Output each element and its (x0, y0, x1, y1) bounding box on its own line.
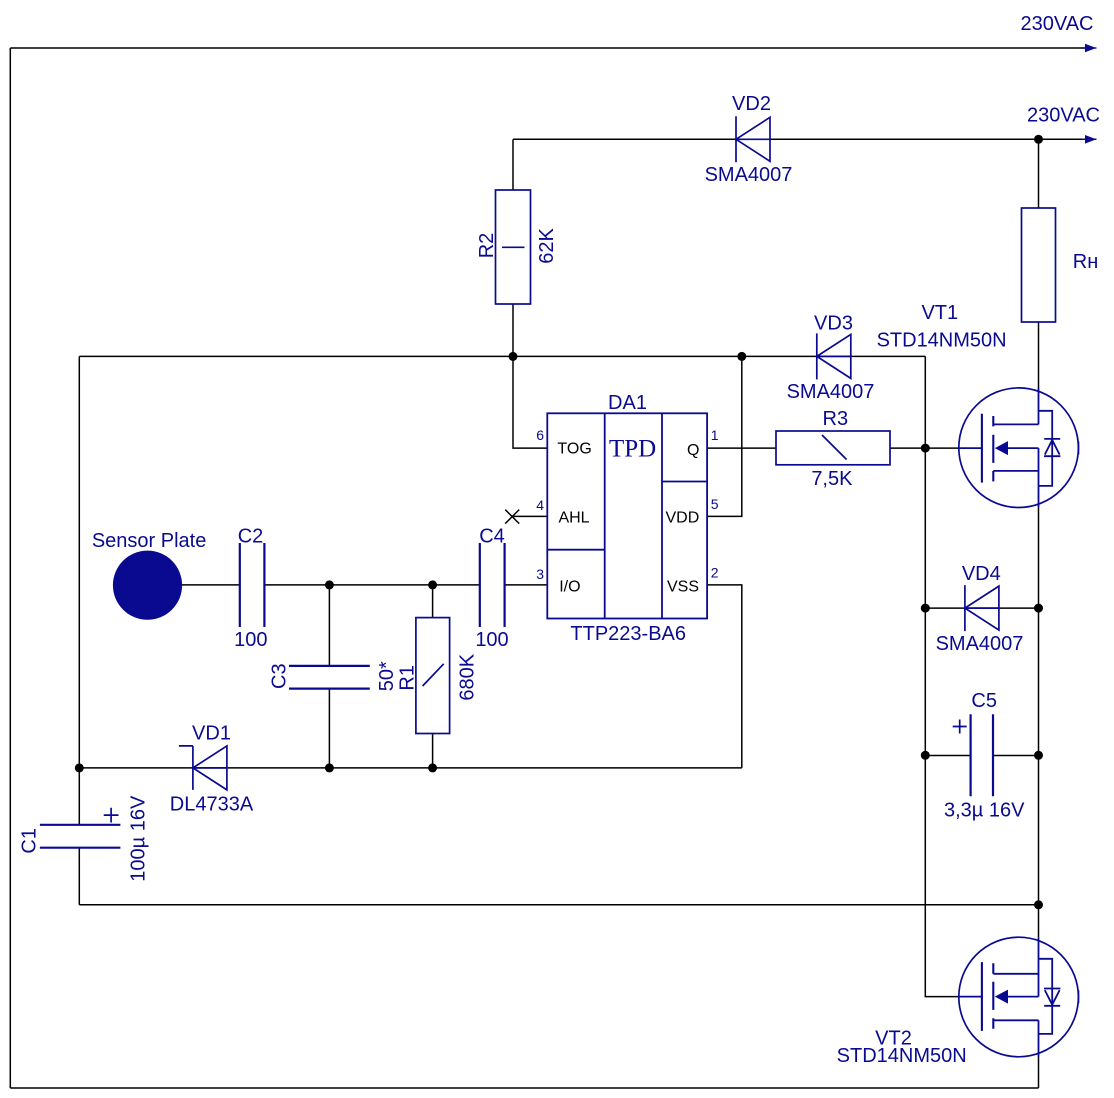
wire DA1 pin 5 VDD lead (707, 356, 742, 516)
svg-text:I/O: I/O (559, 579, 580, 596)
svg-text:230VAC: 230VAC (1027, 105, 1100, 127)
zener diode VD1 DL4733A (170, 723, 254, 816)
wire inner bottom bus (79, 904, 1038, 906)
wire C5 link (925, 755, 1038, 757)
svg-text:1: 1 (711, 427, 719, 443)
capacitor C5 3,3u 16V (944, 690, 1025, 822)
node inner bus / VT2 drain junction (1034, 900, 1043, 909)
node 230VAC / Rn junction (1034, 135, 1043, 144)
net 230VAC lower label (1027, 105, 1100, 127)
diode VD4 SMA4007 (936, 563, 1024, 655)
svg-text:62K: 62K (536, 228, 558, 264)
node C3 / ground bus junction (325, 763, 334, 772)
svg-text:SMA4007: SMA4007 (936, 633, 1024, 655)
svg-text:6: 6 (536, 427, 544, 443)
svg-text:Rн: Rн (1073, 251, 1099, 273)
svg-text:VD4: VD4 (962, 563, 1001, 585)
svg-text:SMA4007: SMA4007 (787, 381, 875, 403)
svg-text:50*: 50* (376, 661, 398, 691)
wire gate rail to VT2 (925, 356, 959, 996)
node C5 right junction (1034, 751, 1043, 760)
resistor R1 680K (397, 618, 479, 734)
svg-text:100: 100 (234, 629, 267, 651)
wire top supply bus (79, 355, 925, 357)
sensor plate electrode (92, 530, 207, 620)
wire R2 bottom lead (512, 304, 514, 356)
svg-text:TPD: TPD (609, 436, 656, 463)
svg-text:3: 3 (536, 566, 544, 582)
wire DA1 pin 1 to R3 (707, 447, 776, 449)
IC DA1 TTP223-BA6 (536, 392, 718, 645)
wire R1 leads (432, 585, 434, 768)
svg-text:DA1: DA1 (608, 392, 647, 414)
no-connect cross pin 4 (505, 510, 519, 524)
svg-text:VD2: VD2 (732, 93, 771, 115)
transistor VT1 STD14NM50N (877, 302, 1079, 508)
node R1 / ground bus junction (428, 763, 437, 772)
svg-text:VSS: VSS (667, 579, 699, 596)
capacitor C3 50* (269, 661, 399, 691)
svg-text:Sensor Plate: Sensor Plate (92, 530, 207, 552)
svg-text:100µ 16V: 100µ 16V (128, 795, 150, 882)
node C5 left junction (921, 751, 930, 760)
node R2 / supply bus junction (509, 352, 518, 361)
wire R2 top lead (512, 139, 514, 190)
wire C4 to DA1 pin 3 (505, 584, 548, 586)
wire sensor plate to C2 (182, 584, 240, 586)
svg-text:STD14NM50N: STD14NM50N (877, 329, 1007, 351)
svg-text:4: 4 (536, 497, 544, 513)
capacitor C1 100u 16V (19, 795, 150, 882)
wire 230VAC to Rn (1038, 139, 1040, 208)
node VDD riser junction (737, 352, 746, 361)
wire left rail down to C1 (78, 356, 80, 824)
node R3 / VT1 gate junction (921, 444, 930, 453)
svg-text:5: 5 (711, 496, 719, 512)
wire VT2 source to bottom frame (1038, 1056, 1040, 1088)
svg-text:C4: C4 (479, 526, 505, 548)
wire lower 230VAC bus (513, 138, 1088, 140)
wire top 230VAC line (10, 47, 1088, 49)
svg-text:230VAC: 230VAC (1020, 13, 1093, 35)
net 230VAC lower arrow (1082, 135, 1097, 144)
svg-text:C1: C1 (19, 828, 41, 854)
net 230VAC top label (1020, 13, 1093, 35)
svg-text:SMA4007: SMA4007 (705, 164, 793, 186)
resistor Rn load (1022, 208, 1099, 322)
resistor R2 62K (476, 190, 558, 304)
net 230VAC top arrow (1082, 44, 1097, 53)
node R1 / C4 junction (428, 580, 437, 589)
svg-text:VDD: VDD (666, 510, 700, 527)
wire VT1 source rail (1038, 507, 1040, 937)
wire ground bus (79, 767, 742, 769)
node C1 / ground bus junction (75, 763, 84, 772)
capacitor C4 100 (475, 526, 508, 651)
wire DA1 pin 6 lead (513, 356, 547, 448)
node VD4 left junction (921, 604, 930, 613)
wire C2 to C4 (264, 584, 479, 586)
svg-text:Q: Q (687, 442, 699, 459)
svg-text:TTP223-BA6: TTP223-BA6 (570, 623, 686, 645)
svg-text:VD3: VD3 (814, 313, 853, 335)
wire DA1 pin 2 VSS to ground bus (707, 585, 742, 768)
svg-text:AHL: AHL (558, 510, 589, 527)
svg-text:DL4733A: DL4733A (170, 793, 254, 815)
svg-text:R3: R3 (823, 408, 849, 430)
node VD4 right junction (1034, 604, 1043, 613)
wire left frame (9, 48, 11, 1088)
wire DA1 pin 4 stub (512, 515, 547, 517)
wire Rn to VT1 drain (1038, 322, 1040, 388)
resistor R3 7,5K (776, 408, 890, 490)
wire R3 to VT1 gate (890, 447, 959, 449)
svg-text:2: 2 (711, 565, 719, 581)
node C2 / C3 junction (325, 580, 334, 589)
svg-text:R2: R2 (476, 233, 498, 259)
svg-text:680K: 680K (457, 653, 479, 700)
svg-text:VT1: VT1 (921, 302, 958, 324)
capacitor C2 100 (234, 526, 267, 651)
svg-text:7,5K: 7,5K (811, 468, 853, 490)
svg-text:VD1: VD1 (192, 723, 231, 745)
diode VD3 SMA4007 (787, 313, 875, 404)
svg-text:STD14NM50N: STD14NM50N (837, 1045, 967, 1067)
wire C1 to inner bottom bus (78, 848, 80, 905)
diode VD2 SMA4007 (705, 93, 793, 186)
svg-text:C5: C5 (971, 690, 997, 712)
wire bottom frame (10, 1087, 1038, 1089)
svg-text:C2: C2 (238, 526, 264, 548)
svg-text:C3: C3 (269, 663, 291, 689)
wire VD4 link (925, 607, 1038, 609)
svg-text:100: 100 (475, 629, 508, 651)
svg-text:TOG: TOG (557, 441, 591, 458)
wire C3 leads (328, 585, 330, 768)
svg-text:R1: R1 (397, 665, 419, 691)
transistor VT2 STD14NM50N (837, 937, 1079, 1067)
svg-text:3,3µ 16V: 3,3µ 16V (944, 799, 1025, 821)
